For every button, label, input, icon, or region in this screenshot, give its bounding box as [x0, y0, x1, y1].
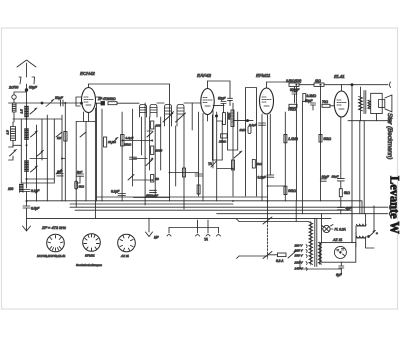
- socket 2 EFM11: [83, 234, 101, 252]
- wire EL41 cathode right: [340, 117, 342, 214]
- mains lead top: [239, 221, 267, 223]
- input filter box: [6, 127, 16, 141]
- junction dot y120.6: [247, 120, 249, 122]
- AZ11 rectifier box: [321, 243, 356, 263]
- switch S1 arrow: [30, 108, 37, 114]
- junction dots middle: [121, 140, 170, 181]
- wire horizontal y158: [30, 158, 65, 160]
- left tuner vertical wire A: [26, 103, 28, 188]
- continuation mark bus2: [390, 211, 391, 216]
- cap 500uF: [290, 87, 300, 103]
- switch S7 arrow: [80, 132, 86, 137]
- svg-text:50kΩ: 50kΩ: [324, 137, 332, 141]
- volume pot arrow: [234, 151, 242, 158]
- svg-text:0.1µF: 0.1µF: [111, 190, 120, 194]
- svg-text:1.5: 1.5: [6, 130, 10, 135]
- svg-text:1.5: 1.5: [20, 109, 24, 114]
- cap 10uF right: [320, 175, 330, 181]
- switch S3 arrow: [37, 151, 44, 157]
- speaker: [371, 93, 392, 113]
- resistor 50k right: [319, 134, 332, 142]
- right supply verticals: [352, 201, 374, 248]
- svg-text:3000: 3000: [156, 149, 163, 153]
- terminal hook 3: [204, 220, 210, 242]
- svg-text:125 V: 125 V: [295, 249, 304, 253]
- cap 0.5uF left: [23, 206, 40, 211]
- continuation mark bus1: [390, 205, 391, 210]
- tube EFM11: [260, 82, 274, 114]
- cap 0.1uF left: [23, 189, 40, 193]
- wire top rail right: [342, 84, 389, 86]
- cap 5uF left: [76, 170, 83, 183]
- cap 1500pF: [146, 190, 158, 197]
- terminal hook 4: [217, 228, 221, 237]
- wire HV to AZ: [355, 232, 357, 247]
- IFT2 coil a with trimmer: [163, 105, 174, 127]
- cap 0.1uF EFM: [249, 123, 266, 127]
- wire input filter: [12, 122, 14, 147]
- wire: [184, 102, 200, 104]
- svg-text:ZF 472: ZF 472: [97, 97, 108, 101]
- svg-text:2.5kΩ(1W): 2.5kΩ(1W): [285, 79, 301, 83]
- trimmer cap x230: [228, 98, 233, 105]
- band coil L3: [25, 129, 28, 140]
- bus line y218: [27, 217, 332, 219]
- svg-text:EAF42: EAF42: [197, 73, 211, 78]
- fuse 0.8A: [276, 253, 286, 263]
- svg-text:0.8 A: 0.8 A: [276, 259, 283, 263]
- switch TA arrow: [208, 162, 216, 168]
- IFT1 coil a: [140, 105, 147, 118]
- svg-text:ZF = 472 kHz: ZF = 472 kHz: [41, 225, 66, 230]
- svg-text:5kΩ: 5kΩ: [79, 185, 85, 189]
- wire horizontal y183: [21, 182, 54, 184]
- voltage taps: [294, 244, 308, 271]
- coil 100ohm bottom left: [8, 184, 23, 193]
- wire switch to fuse: [268, 254, 278, 256]
- svg-text:ECH42: ECH42: [80, 71, 95, 76]
- speaker lead: [376, 114, 378, 121]
- right mid verticals: [199, 86, 352, 242]
- resistor R-grid: [108, 97, 117, 105]
- cap osc: [130, 157, 137, 159]
- band coil L4: [25, 161, 28, 172]
- svg-text:0.1µF: 0.1µF: [126, 136, 134, 140]
- wire antenna branch left: [14, 92, 27, 95]
- mixer grid resistor box: [121, 135, 134, 147]
- grid box ECH42: [76, 97, 101, 106]
- tube EL41: [334, 85, 348, 117]
- svg-text:0.1µF: 0.1µF: [249, 123, 257, 127]
- resistor 25k: [218, 134, 227, 144]
- junction dot antenna line: [41, 102, 43, 104]
- cap 6uF: [336, 262, 344, 277]
- svg-text:2x700: 2x700: [8, 86, 18, 90]
- wires EAF42 pins: [203, 111, 213, 201]
- AZ11 tube circle: [334, 246, 346, 258]
- switch S5 arrow: [56, 132, 62, 137]
- bus line y207: [70, 206, 388, 208]
- bus line y197: [97, 196, 268, 198]
- antenna coil L2: [20, 106, 29, 117]
- svg-text:Star (Beckmann): Star (Beckmann): [386, 113, 393, 159]
- cap 50uF: [305, 99, 316, 105]
- cap 10uF EL41 cathode: [332, 174, 345, 181]
- socket 1 ECH42: [47, 234, 65, 252]
- svg-text:5µF: 5µF: [77, 170, 82, 174]
- wire rail lower: [348, 120, 388, 122]
- resistor 1M left: [57, 132, 67, 142]
- coil rect EAF: [231, 110, 234, 127]
- mains switch: [263, 217, 272, 259]
- switch arrows middle: [111, 132, 153, 181]
- junction dots left block: [26, 102, 67, 202]
- svg-text:TA: TA: [208, 162, 212, 166]
- HV winding: [356, 224, 366, 238]
- svg-text:750Ω: 750Ω: [288, 108, 296, 112]
- pot pill: [248, 126, 251, 134]
- svg-text:ECH42,EAF42,EL41: ECH42,EAF42,EL41: [37, 254, 66, 258]
- coil L1: [12, 103, 16, 112]
- wire horizontal y179: [27, 178, 55, 180]
- svg-text:110 V: 110 V: [295, 244, 304, 248]
- resistor 70: [322, 100, 330, 107]
- wire links middle: [122, 131, 198, 198]
- wire horizontal y119: [13, 118, 62, 120]
- svg-text:EL41: EL41: [334, 74, 345, 79]
- junction dot plate rail: [351, 84, 353, 86]
- continuation mark top: [390, 82, 391, 88]
- svg-text:PL 0.2A: PL 0.2A: [335, 228, 346, 232]
- middle block verticals: [97, 84, 193, 209]
- cap bottom mid 1: [111, 190, 126, 196]
- svg-text:10µF: 10µF: [332, 174, 339, 178]
- transformer heater winding: [318, 242, 321, 265]
- trimmer capacitor: [12, 95, 16, 103]
- IFT1 coil b: [150, 105, 157, 118]
- resistor x199: [197, 185, 200, 194]
- wire top EAF42: [208, 81, 231, 98]
- supply bottom wire: [300, 260, 341, 274]
- tube ECH42: [82, 84, 96, 113]
- wires ECH42 pins: [84, 108, 96, 218]
- IFT2 coil b with trimmer: [176, 105, 186, 127]
- svg-text:500µF: 500µF: [290, 88, 300, 92]
- bus line y201: [27, 200, 363, 202]
- svg-text:10 kΩ: 10 kΩ: [108, 140, 117, 144]
- switch arrow antenna line: [46, 100, 54, 107]
- svg-text:50µF: 50µF: [305, 99, 313, 103]
- switch S2 arrow: [31, 131, 38, 137]
- svg-text:1kΩ: 1kΩ: [315, 79, 321, 83]
- bus line y213.7: [217, 213, 388, 215]
- wire horizontal y145: [13, 144, 21, 146]
- svg-text:TA: TA: [204, 238, 208, 242]
- resistor 50k EAF: [223, 112, 231, 125]
- switch arrow input: [10, 150, 17, 156]
- svg-text:80kΩ: 80kΩ: [108, 97, 116, 101]
- cap 4uF far right: [338, 207, 353, 211]
- wire plate drop: [351, 85, 353, 121]
- svg-text:Sockelschaltungen: Sockelschaltungen: [76, 263, 102, 267]
- svg-text:100: 100: [8, 187, 14, 191]
- wire top EFM: [267, 81, 290, 83]
- wire links right-mid: [212, 121, 285, 186]
- junction dot EAF: [215, 115, 217, 117]
- wire to IFT1: [117, 102, 139, 104]
- transformer primary: [309, 222, 313, 266]
- wire horizontal y121.5: [76, 121, 95, 123]
- resistor 1.1M: [284, 134, 298, 142]
- wire to ground: [26, 208, 28, 223]
- svg-text:0.5µF: 0.5µF: [31, 207, 40, 211]
- switch S6 arrow: [56, 169, 62, 174]
- selector arrow: [288, 251, 297, 259]
- osc resistor 3000: [151, 146, 163, 155]
- svg-text:70Ω: 70Ω: [322, 100, 329, 104]
- heater leads right: [360, 121, 364, 214]
- socket 3 AZ11: [118, 234, 136, 252]
- continuation mark lower: [390, 118, 391, 124]
- svg-text:5kΩ: 5kΩ: [344, 191, 350, 195]
- svg-text:EFM11: EFM11: [85, 254, 95, 258]
- svg-text:240 V: 240 V: [294, 267, 304, 271]
- junction dots right-mid: [232, 84, 321, 202]
- transformer core: [315, 219, 317, 267]
- cap 50pF EAF: [218, 97, 226, 113]
- svg-text:Levante W: Levante W: [388, 176, 400, 235]
- terminal bus: [169, 227, 219, 229]
- svg-text:300: 300: [156, 124, 161, 128]
- wire top rail from ECH42: [89, 83, 170, 85]
- output transformer: [359, 87, 371, 121]
- osc resistor 50: [151, 175, 160, 183]
- ground MP: [146, 218, 160, 240]
- cap x199: [195, 174, 202, 176]
- svg-text:1M: 1M: [57, 136, 62, 140]
- pilot lamp: [322, 225, 346, 233]
- svg-text:50µF: 50µF: [55, 96, 64, 100]
- svg-text:a: a: [376, 231, 378, 235]
- wire EAF pin row: [213, 105, 224, 107]
- svg-text:0.1µF: 0.1µF: [258, 176, 267, 180]
- svg-text:25kΩ: 25kΩ: [123, 143, 132, 147]
- bus line y204: [70, 203, 233, 205]
- antenna: [17, 60, 36, 103]
- osc resistor 300: [151, 121, 161, 129]
- svg-text:AZ 11: AZ 11: [120, 254, 129, 258]
- svg-text:MP: MP: [154, 236, 160, 240]
- svg-text:50: 50: [156, 177, 160, 181]
- resistor 5k shield: [252, 160, 262, 168]
- wire: [26, 192, 28, 207]
- resistor pill left: [75, 181, 85, 189]
- resistor 1k: [314, 79, 324, 86]
- svg-text:150 V: 150 V: [295, 254, 304, 258]
- terminal hook 2: [196, 220, 200, 236]
- pot resistor: [232, 160, 235, 170]
- svg-text:0.2MΩ: 0.2MΩ: [307, 94, 317, 98]
- resistor x184: [183, 168, 186, 177]
- mains plug hooks: [237, 219, 240, 259]
- ground symbol: [23, 223, 31, 231]
- main signal line left: [9, 102, 83, 104]
- switch S4 arrow: [31, 166, 38, 172]
- svg-text:0.1µF: 0.1µF: [31, 189, 40, 193]
- svg-text:220 V: 220 V: [294, 261, 304, 265]
- feedthrough cap: [97, 97, 108, 105]
- left block vertical wires: [21, 103, 86, 207]
- cap 0.1 right-mid: [258, 175, 274, 180]
- terminal hook 1: [167, 228, 171, 237]
- resistor 10k mixer: [104, 137, 117, 147]
- svg-text:50µF: 50µF: [29, 86, 38, 90]
- shield box EFM: [246, 88, 257, 197]
- svg-text:AZ 11: AZ 11: [332, 238, 342, 242]
- resistor 0.2M: [303, 94, 317, 102]
- wire link y120.6: [233, 120, 253, 122]
- wire: [157, 102, 164, 104]
- resistor 750: [288, 104, 297, 111]
- wire: [13, 112, 15, 122]
- svg-text:1.1MΩ: 1.1MΩ: [288, 137, 298, 141]
- cap left mid: [57, 170, 63, 176]
- mains lead bottom: [239, 255, 267, 257]
- svg-text:EFM11: EFM11: [256, 73, 271, 78]
- svg-text:10µF: 10µF: [322, 175, 330, 179]
- svg-text:5kΩ: 5kΩ: [257, 162, 263, 166]
- svg-text:1µF: 1µF: [57, 170, 62, 174]
- wire selector top: [268, 221, 310, 223]
- resistor 50k lower: [284, 186, 297, 194]
- tube EAF42: [201, 81, 214, 115]
- resistor 2.5k 1W: [285, 79, 301, 86]
- wire supply vertical b: [301, 102, 303, 214]
- wire switch input: [9, 147, 14, 160]
- wire supply vertical c: [321, 214, 323, 243]
- resistor 5k bottom right: [339, 189, 350, 197]
- bus line y210: [75, 209, 352, 211]
- svg-text:50µF: 50µF: [218, 97, 226, 101]
- B+ switch arrow: [368, 231, 378, 238]
- wire B+ top: [299, 84, 342, 86]
- svg-text:50kΩ: 50kΩ: [288, 189, 296, 193]
- wire supply vertical a: [295, 201, 297, 222]
- coupling capacitor 50pF: [55, 96, 64, 106]
